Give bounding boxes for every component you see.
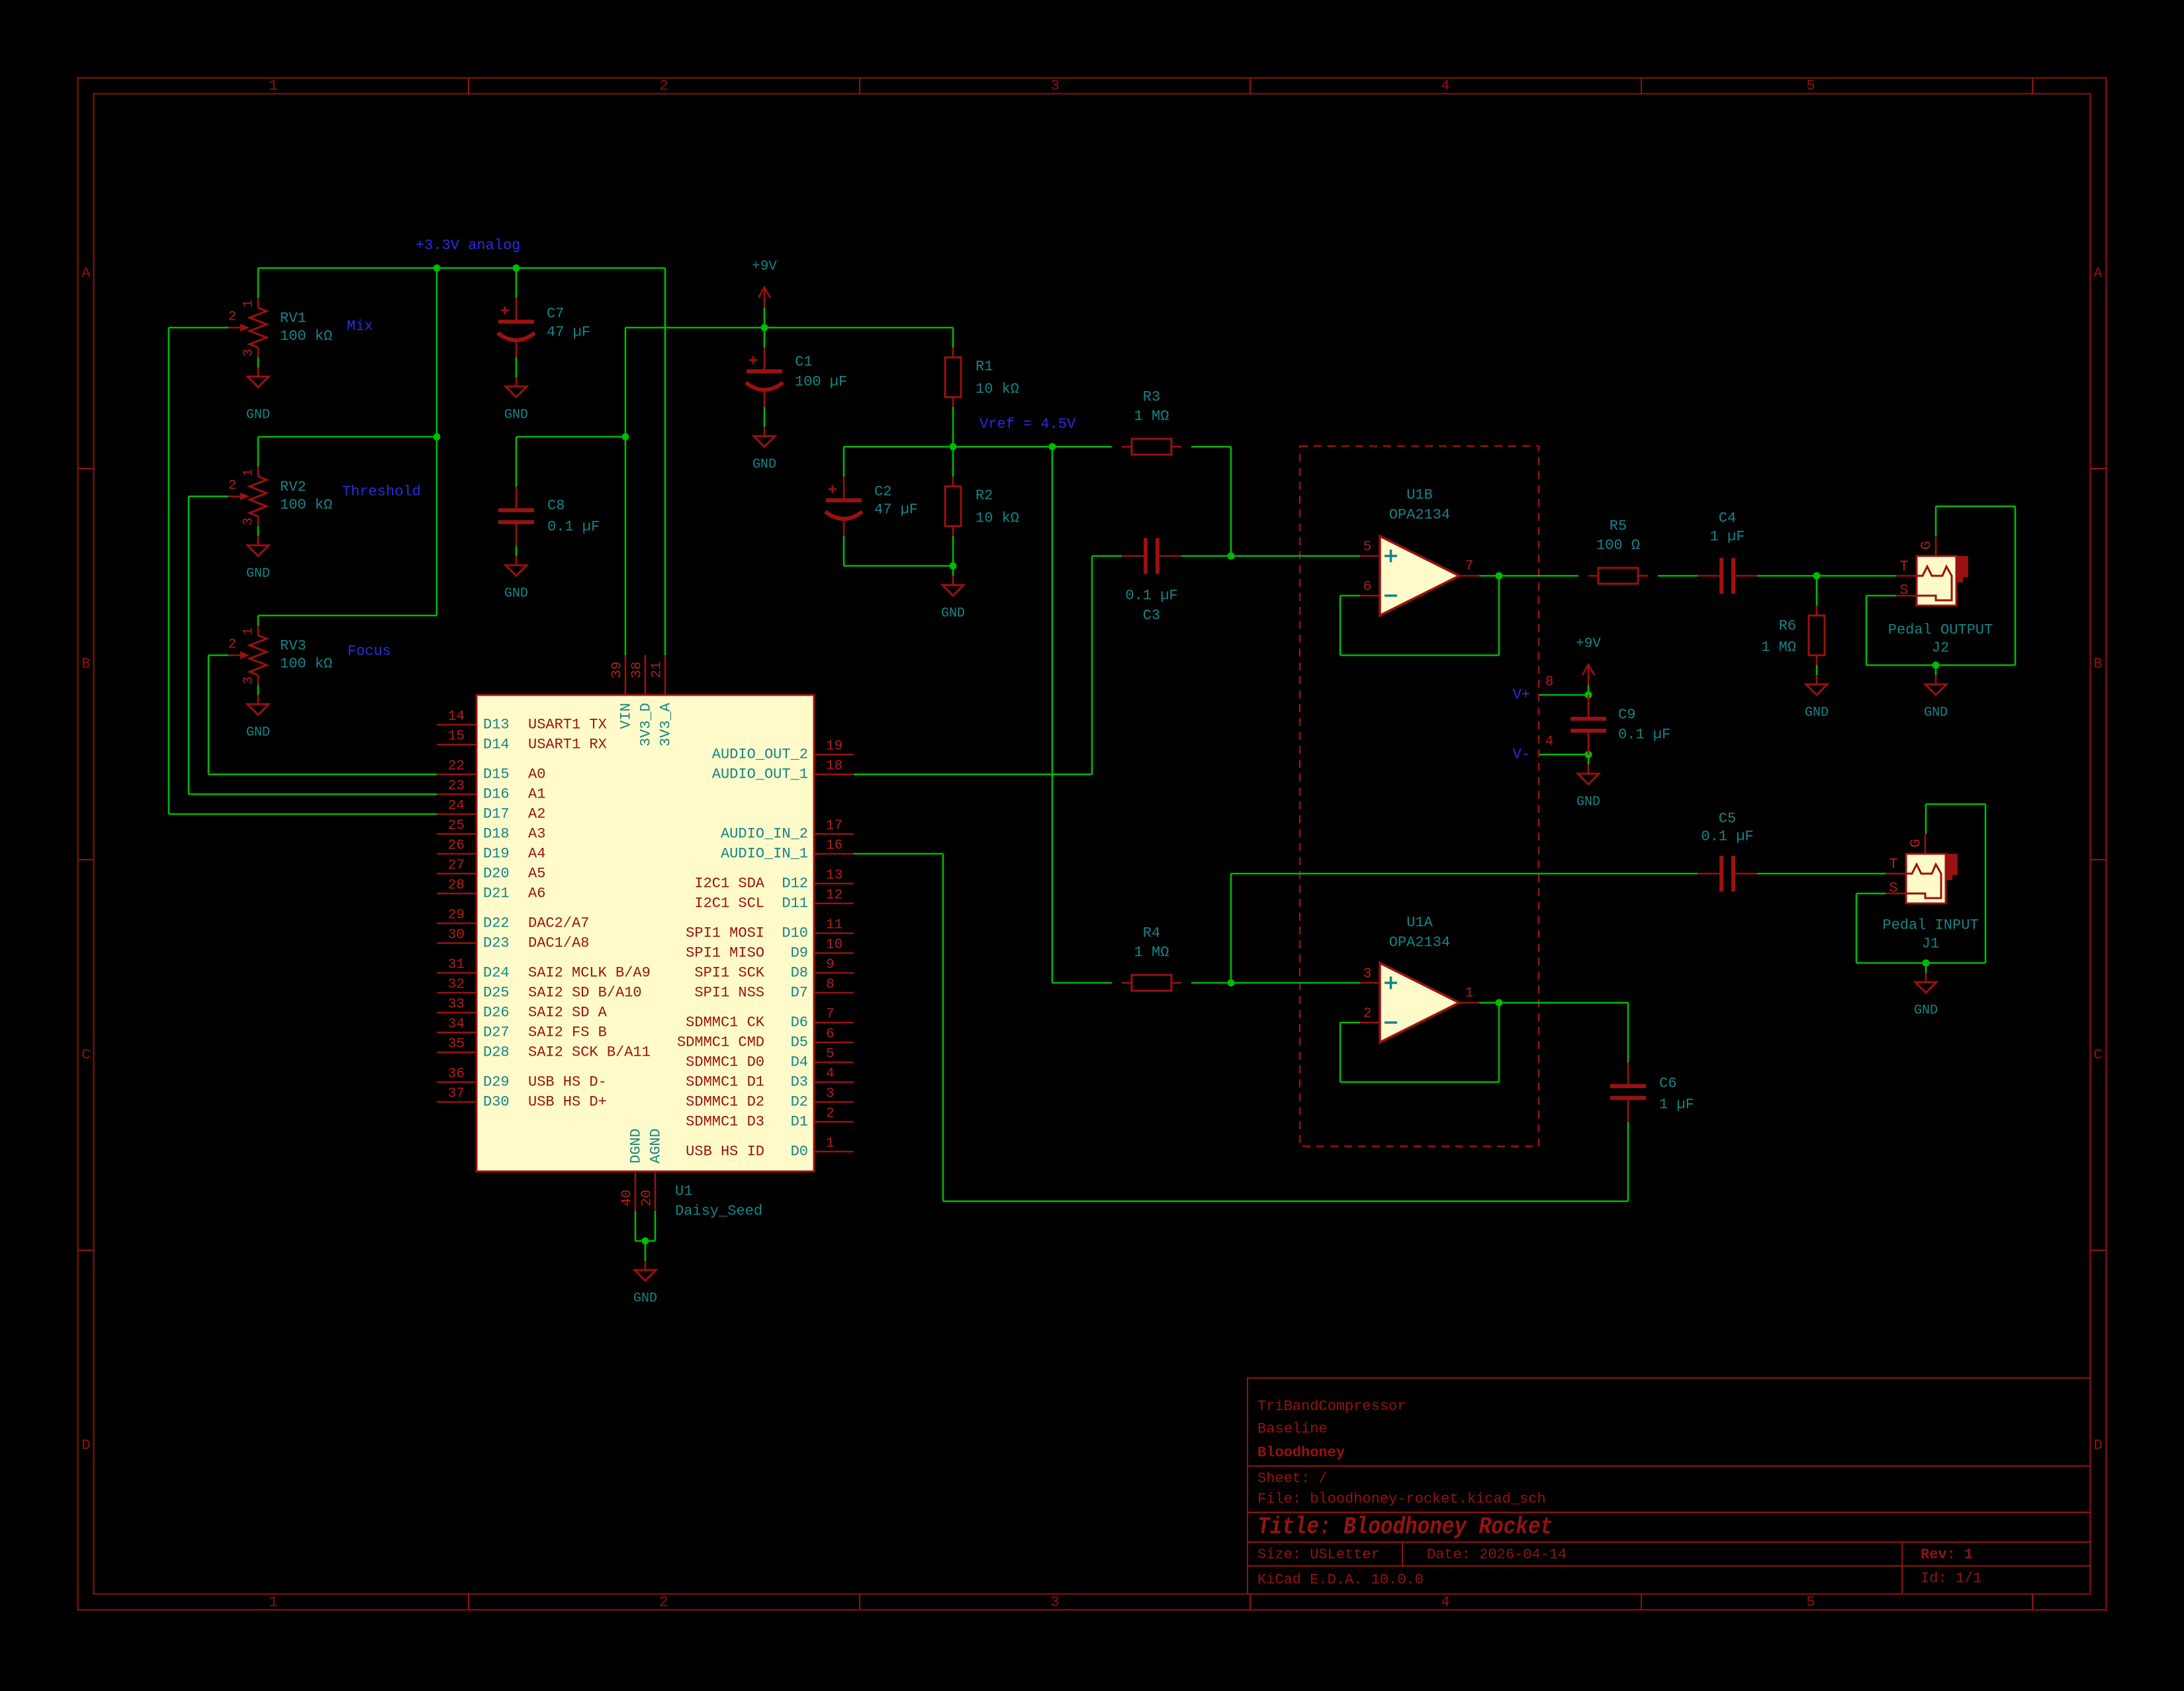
- svg-text:A3: A3: [528, 826, 545, 843]
- svg-text:Daisy_Seed: Daisy_Seed: [675, 1203, 762, 1220]
- svg-text:SPI1 MISO: SPI1 MISO: [686, 945, 764, 962]
- svg-text:6: 6: [826, 1027, 835, 1042]
- svg-text:GND: GND: [1924, 706, 1948, 721]
- svg-text:D4: D4: [791, 1054, 808, 1071]
- svg-text:D22: D22: [483, 915, 510, 932]
- svg-text:T: T: [1889, 856, 1897, 873]
- svg-text:D2: D2: [791, 1094, 808, 1111]
- svg-text:SAI2 MCLK B/A9: SAI2 MCLK B/A9: [528, 965, 651, 982]
- svg-text:A: A: [2093, 265, 2103, 282]
- svg-text:D30: D30: [483, 1094, 510, 1111]
- svg-text:2: 2: [1363, 1007, 1372, 1022]
- svg-text:Pedal INPUT: Pedal INPUT: [1882, 917, 1978, 934]
- svg-text:S: S: [1889, 880, 1897, 897]
- svg-text:D0: D0: [791, 1144, 808, 1160]
- svg-text:D24: D24: [483, 965, 510, 982]
- svg-text:SDMMC1 CMD: SDMMC1 CMD: [677, 1034, 764, 1051]
- svg-text:C1: C1: [795, 354, 812, 371]
- svg-text:Focus: Focus: [347, 643, 391, 660]
- svg-text:36: 36: [448, 1067, 465, 1082]
- svg-text:Id: 1/1: Id: 1/1: [1921, 1571, 1981, 1587]
- svg-text:SAI2 FS B: SAI2 FS B: [528, 1025, 607, 1041]
- svg-text:4: 4: [1441, 78, 1449, 95]
- svg-text:C: C: [2093, 1047, 2102, 1064]
- svg-text:25: 25: [448, 819, 465, 834]
- svg-text:1: 1: [1465, 986, 1474, 1001]
- svg-text:USB HS D+: USB HS D+: [528, 1094, 607, 1111]
- svg-text:C2: C2: [874, 484, 891, 500]
- svg-text:D11: D11: [782, 895, 808, 912]
- svg-text:Title: Bloodhoney Rocket: Title: Bloodhoney Rocket: [1257, 1514, 1553, 1541]
- svg-text:J2: J2: [1932, 640, 1949, 657]
- svg-text:A0: A0: [528, 766, 545, 783]
- svg-text:1 µF: 1 µF: [1659, 1097, 1694, 1113]
- svg-text:SAI2 SCK B/A11: SAI2 SCK B/A11: [528, 1044, 651, 1061]
- svg-text:1 MΩ: 1 MΩ: [1134, 408, 1169, 425]
- svg-text:USART1 TX: USART1 TX: [528, 717, 607, 733]
- svg-text:7: 7: [826, 1007, 835, 1023]
- svg-text:SPI1 SCK: SPI1 SCK: [694, 965, 764, 982]
- svg-text:D25: D25: [483, 985, 510, 1001]
- svg-text:R4: R4: [1143, 925, 1160, 942]
- svg-text:35: 35: [448, 1037, 465, 1052]
- svg-text:2: 2: [228, 637, 236, 653]
- svg-text:Size: USLetter: Size: USLetter: [1257, 1547, 1380, 1563]
- svg-text:TriBandCompressor: TriBandCompressor: [1257, 1398, 1406, 1415]
- svg-text:100 Ω: 100 Ω: [1596, 537, 1640, 554]
- svg-text:File: bloodhoney-rocket.kicad_: File: bloodhoney-rocket.kicad_sch: [1257, 1491, 1546, 1508]
- svg-text:GND: GND: [504, 586, 528, 602]
- svg-text:USART1 RX: USART1 RX: [528, 737, 607, 753]
- svg-text:27: 27: [448, 858, 465, 874]
- svg-text:R5: R5: [1610, 518, 1627, 535]
- svg-text:GND: GND: [246, 408, 270, 423]
- svg-text:Rev: 1: Rev: 1: [1921, 1547, 1973, 1563]
- svg-text:U1B: U1B: [1406, 487, 1433, 504]
- svg-text:VIN: VIN: [618, 703, 635, 729]
- svg-text:D14: D14: [483, 737, 510, 753]
- svg-text:B: B: [81, 656, 90, 672]
- svg-text:3V3_A: 3V3_A: [658, 702, 674, 747]
- svg-text:GND: GND: [504, 408, 528, 423]
- svg-text:+9V: +9V: [752, 259, 777, 275]
- svg-text:5: 5: [826, 1047, 835, 1062]
- svg-text:24: 24: [448, 799, 465, 814]
- svg-text:D27: D27: [483, 1025, 510, 1041]
- svg-text:47 µF: 47 µF: [547, 324, 590, 341]
- svg-text:GND: GND: [1576, 795, 1600, 810]
- svg-text:I2C1 SDA: I2C1 SDA: [694, 876, 764, 892]
- svg-text:D15: D15: [483, 766, 510, 783]
- svg-text:A: A: [81, 265, 91, 282]
- svg-text:4: 4: [1441, 1594, 1449, 1611]
- svg-text:C5: C5: [1719, 811, 1736, 827]
- svg-text:R1: R1: [976, 359, 993, 375]
- svg-text:GND: GND: [633, 1291, 657, 1306]
- svg-text:SDMMC1 D2: SDMMC1 D2: [686, 1094, 764, 1111]
- svg-text:B: B: [2093, 656, 2102, 672]
- svg-text:I2C1 SCL: I2C1 SCL: [694, 895, 764, 912]
- svg-text:5: 5: [1806, 1594, 1815, 1611]
- svg-text:29: 29: [448, 908, 465, 923]
- svg-text:OPA2134: OPA2134: [1389, 507, 1450, 524]
- svg-text:USB HS D-: USB HS D-: [528, 1074, 607, 1091]
- svg-text:S: S: [1899, 582, 1908, 599]
- svg-text:V-: V-: [1513, 747, 1530, 763]
- svg-text:A5: A5: [528, 866, 545, 882]
- svg-text:2: 2: [228, 310, 236, 325]
- svg-text:2: 2: [659, 78, 668, 95]
- svg-text:R6: R6: [1779, 618, 1796, 635]
- svg-text:26: 26: [448, 839, 465, 854]
- svg-text:2: 2: [826, 1107, 835, 1122]
- svg-text:0.1 µF: 0.1 µF: [1618, 727, 1670, 743]
- svg-text:AGND: AGND: [648, 1128, 664, 1164]
- svg-text:4: 4: [1545, 735, 1554, 750]
- svg-text:D3: D3: [791, 1074, 808, 1091]
- svg-text:C8: C8: [547, 498, 565, 514]
- svg-text:21: 21: [650, 661, 665, 678]
- svg-text:11: 11: [826, 918, 842, 933]
- svg-text:2: 2: [659, 1594, 668, 1611]
- svg-text:RV3: RV3: [280, 638, 306, 655]
- svg-text:D8: D8: [791, 965, 808, 982]
- svg-text:32: 32: [448, 978, 465, 993]
- svg-text:Vref = 4.5V: Vref = 4.5V: [979, 416, 1076, 433]
- svg-text:GND: GND: [246, 725, 270, 741]
- svg-text:1: 1: [242, 300, 257, 308]
- svg-text:0.1 µF: 0.1 µF: [1701, 829, 1753, 845]
- svg-text:1: 1: [242, 469, 257, 477]
- svg-text:D6: D6: [791, 1015, 808, 1031]
- svg-text:D: D: [2093, 1438, 2102, 1454]
- svg-text:GND: GND: [246, 567, 270, 582]
- svg-text:0.1 µF: 0.1 µF: [547, 519, 600, 535]
- svg-text:1: 1: [269, 78, 277, 95]
- svg-text:G: G: [1908, 839, 1925, 847]
- svg-text:4: 4: [826, 1067, 835, 1082]
- svg-text:A6: A6: [528, 886, 545, 902]
- svg-text:D10: D10: [782, 925, 808, 942]
- svg-text:C: C: [81, 1047, 90, 1064]
- svg-text:R3: R3: [1143, 389, 1160, 406]
- svg-text:7: 7: [1465, 559, 1474, 574]
- svg-text:3: 3: [242, 676, 257, 684]
- svg-text:DAC1/A8: DAC1/A8: [528, 935, 589, 952]
- svg-text:U1: U1: [675, 1183, 692, 1200]
- svg-text:RV2: RV2: [280, 479, 306, 496]
- svg-text:3: 3: [1363, 967, 1372, 982]
- svg-text:3: 3: [242, 349, 257, 357]
- svg-text:C4: C4: [1719, 510, 1736, 527]
- svg-text:22: 22: [448, 759, 465, 774]
- svg-text:9: 9: [826, 958, 835, 973]
- svg-text:SAI2 SD A: SAI2 SD A: [528, 1005, 608, 1021]
- svg-text:17: 17: [826, 819, 842, 834]
- svg-text:G: G: [1919, 541, 1935, 549]
- svg-text:1: 1: [242, 627, 257, 635]
- svg-text:D1: D1: [791, 1114, 808, 1130]
- svg-text:100 kΩ: 100 kΩ: [280, 497, 332, 514]
- svg-text:30: 30: [448, 928, 465, 943]
- svg-text:DAC2/A7: DAC2/A7: [528, 915, 589, 932]
- svg-text:1 µF: 1 µF: [1710, 529, 1745, 545]
- svg-text:2: 2: [228, 479, 236, 494]
- svg-text:100 µF: 100 µF: [795, 374, 847, 390]
- svg-text:USB HS ID: USB HS ID: [686, 1144, 764, 1160]
- svg-text:D9: D9: [791, 945, 808, 962]
- svg-text:5: 5: [1363, 540, 1372, 555]
- svg-text:47 µF: 47 µF: [874, 502, 918, 518]
- svg-text:8: 8: [1545, 675, 1554, 690]
- svg-text:D12: D12: [782, 876, 808, 892]
- svg-text:Threshold: Threshold: [342, 484, 421, 500]
- svg-text:19: 19: [826, 739, 842, 754]
- svg-text:23: 23: [448, 779, 465, 794]
- svg-text:1: 1: [826, 1136, 835, 1152]
- svg-text:15: 15: [448, 729, 465, 745]
- svg-text:J1: J1: [1922, 936, 1939, 952]
- svg-text:D5: D5: [791, 1034, 808, 1051]
- svg-text:38: 38: [630, 661, 645, 678]
- svg-text:16: 16: [826, 839, 842, 854]
- svg-text:R2: R2: [976, 488, 993, 504]
- svg-text:AUDIO_OUT_2: AUDIO_OUT_2: [712, 747, 808, 763]
- svg-text:3: 3: [826, 1087, 835, 1102]
- svg-text:33: 33: [448, 997, 465, 1013]
- svg-text:Bloodhoney: Bloodhoney: [1257, 1445, 1345, 1461]
- svg-text:0.1 µF: 0.1 µF: [1125, 588, 1177, 604]
- svg-text:39: 39: [610, 661, 625, 678]
- svg-text:Pedal OUTPUT: Pedal OUTPUT: [1888, 622, 1993, 639]
- svg-text:3V3_D: 3V3_D: [638, 703, 655, 747]
- svg-text:D16: D16: [483, 786, 510, 803]
- svg-text:C7: C7: [547, 306, 564, 322]
- svg-text:6: 6: [1363, 580, 1372, 595]
- svg-text:D18: D18: [483, 826, 510, 843]
- svg-text:D7: D7: [791, 985, 808, 1001]
- svg-text:RV1: RV1: [280, 310, 306, 327]
- svg-text:40: 40: [620, 1189, 635, 1206]
- svg-text:1: 1: [269, 1594, 277, 1611]
- svg-text:10: 10: [826, 938, 842, 953]
- svg-text:GND: GND: [941, 606, 965, 621]
- svg-text:34: 34: [448, 1017, 465, 1032]
- svg-text:28: 28: [448, 878, 465, 893]
- svg-text:A4: A4: [528, 846, 545, 862]
- svg-text:37: 37: [448, 1087, 465, 1102]
- svg-text:100 kΩ: 100 kΩ: [280, 328, 332, 345]
- svg-text:100 kΩ: 100 kΩ: [280, 656, 332, 672]
- svg-text:+3.3V analog: +3.3V analog: [416, 238, 520, 254]
- svg-text:13: 13: [826, 868, 842, 884]
- svg-text:12: 12: [826, 888, 842, 903]
- svg-text:C3: C3: [1143, 608, 1160, 624]
- svg-text:SPI1 MOSI: SPI1 MOSI: [686, 925, 764, 942]
- svg-text:D21: D21: [483, 886, 510, 902]
- svg-text:C9: C9: [1618, 707, 1635, 723]
- svg-text:D17: D17: [483, 806, 510, 823]
- svg-text:3: 3: [1050, 1594, 1059, 1611]
- svg-text:8: 8: [826, 978, 835, 993]
- svg-text:U1A: U1A: [1406, 915, 1433, 931]
- svg-text:1 MΩ: 1 MΩ: [1761, 639, 1796, 656]
- svg-text:1 MΩ: 1 MΩ: [1134, 944, 1169, 961]
- svg-text:Date: 2026-04-14: Date: 2026-04-14: [1427, 1547, 1567, 1563]
- svg-text:+9V: +9V: [1576, 637, 1601, 652]
- svg-text:14: 14: [448, 709, 465, 725]
- svg-text:C6: C6: [1659, 1075, 1676, 1092]
- svg-text:SDMMC1 D1: SDMMC1 D1: [686, 1074, 764, 1091]
- svg-text:3: 3: [242, 518, 257, 526]
- svg-text:A2: A2: [528, 806, 545, 823]
- svg-text:AUDIO_OUT_1: AUDIO_OUT_1: [712, 766, 808, 783]
- svg-text:GND: GND: [752, 457, 776, 473]
- svg-text:D29: D29: [483, 1074, 510, 1091]
- svg-text:SDMMC1 D3: SDMMC1 D3: [686, 1114, 764, 1130]
- svg-text:SDMMC1 D0: SDMMC1 D0: [686, 1054, 764, 1071]
- svg-text:D13: D13: [483, 717, 510, 733]
- svg-text:Sheet: /: Sheet: /: [1257, 1471, 1328, 1487]
- svg-text:SAI2 SD B/A10: SAI2 SD B/A10: [528, 985, 642, 1001]
- svg-text:T: T: [1899, 559, 1908, 575]
- svg-text:Baseline: Baseline: [1257, 1421, 1328, 1438]
- svg-text:OPA2134: OPA2134: [1389, 935, 1450, 951]
- svg-text:20: 20: [640, 1189, 655, 1206]
- svg-text:V+: V+: [1513, 687, 1530, 704]
- svg-text:5: 5: [1806, 78, 1815, 95]
- svg-text:3: 3: [1050, 78, 1059, 95]
- svg-text:SPI1 NSS: SPI1 NSS: [694, 985, 764, 1001]
- svg-text:AUDIO_IN_2: AUDIO_IN_2: [721, 826, 808, 843]
- svg-text:Mix: Mix: [347, 318, 373, 335]
- svg-text:GND: GND: [1914, 1003, 1938, 1019]
- svg-text:SDMMC1 CK: SDMMC1 CK: [686, 1015, 765, 1031]
- svg-text:31: 31: [448, 958, 465, 973]
- svg-text:D26: D26: [483, 1005, 510, 1021]
- svg-text:D23: D23: [483, 935, 510, 952]
- svg-text:A1: A1: [528, 786, 545, 803]
- svg-text:DGND: DGND: [628, 1128, 645, 1164]
- svg-text:D20: D20: [483, 866, 510, 882]
- svg-text:D28: D28: [483, 1044, 510, 1061]
- svg-text:10 kΩ: 10 kΩ: [976, 510, 1019, 527]
- svg-text:GND: GND: [1805, 706, 1829, 721]
- svg-text:AUDIO_IN_1: AUDIO_IN_1: [721, 846, 808, 862]
- svg-text:D19: D19: [483, 846, 510, 862]
- svg-text:18: 18: [826, 759, 842, 774]
- svg-text:KiCad E.D.A. 10.0.0: KiCad E.D.A. 10.0.0: [1257, 1572, 1424, 1588]
- svg-text:10 kΩ: 10 kΩ: [976, 381, 1019, 398]
- svg-text:D: D: [81, 1438, 90, 1454]
